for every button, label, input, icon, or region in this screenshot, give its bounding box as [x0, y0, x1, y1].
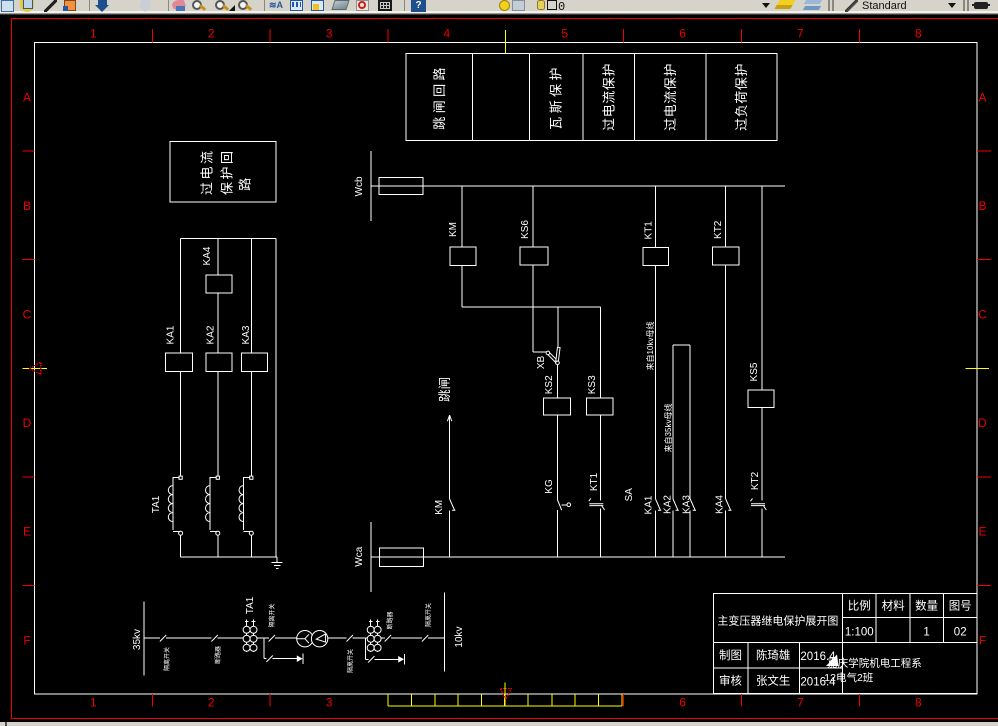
svg-text:KT1: KT1	[644, 221, 655, 240]
wire KA4 to minus bus	[725, 510, 727, 557]
svg-text:D: D	[978, 416, 987, 430]
label KS2	[544, 375, 555, 394]
wire KM coil to trip line	[461, 266, 463, 307]
svg-text:KT1: KT1	[589, 472, 600, 491]
label KS5	[749, 362, 760, 381]
primary feeder line	[144, 637, 444, 639]
row boundary ticks right	[977, 151, 991, 585]
wire: KA1 branch	[180, 239, 182, 478]
contact KA1	[656, 499, 662, 510]
svg-text:7: 7	[797, 696, 804, 710]
label 35kv	[132, 629, 143, 650]
column numbers bottom	[90, 696, 922, 710]
table cell label: overcurrent protection 1	[601, 63, 616, 131]
relay coil KS6	[520, 247, 548, 265]
wire 35kv branch A	[672, 345, 674, 499]
table cell label: overload protection	[734, 63, 749, 131]
svg-text:KS5: KS5	[749, 362, 760, 381]
svg-text:张文生: 张文生	[756, 674, 791, 688]
header drawing no	[949, 600, 972, 613]
centering mark bottom (yellow)	[504, 683, 506, 706]
svg-text:过负荷保护: 过负荷保护	[734, 63, 749, 131]
contact KG	[557, 499, 570, 510]
header quantity	[915, 599, 938, 613]
svg-text:D: D	[23, 416, 32, 430]
svg-text:跳闸回路: 跳闸回路	[432, 64, 447, 130]
trip output arrow	[447, 415, 451, 499]
relay coil KT1	[643, 247, 668, 265]
label KT2 contact	[750, 471, 761, 490]
wire KM drop	[461, 186, 463, 247]
svg-text:嘉庆学院机电工程系: 嘉庆学院机电工程系	[827, 656, 922, 669]
wire KT1 coil to KA1 contact	[655, 266, 657, 499]
wire KM contact to minus bus	[449, 510, 451, 557]
label KA2 contact	[663, 495, 674, 514]
contact KM	[450, 499, 456, 510]
svg-text:35kv: 35kv	[132, 629, 143, 650]
label KA1 contact	[644, 495, 655, 514]
wire KT2 drop	[725, 186, 727, 247]
svg-text:隔离开关: 隔离开关	[268, 603, 276, 627]
school name line1	[827, 656, 922, 669]
table cell label: gas protection	[549, 64, 564, 130]
svg-text:B: B	[23, 199, 31, 213]
svg-text:过电流保护: 过电流保护	[663, 63, 678, 131]
column boundary ticks bottom	[152, 694, 859, 707]
svg-text:KS3: KS3	[587, 375, 598, 394]
svg-text:XB: XB	[536, 356, 547, 370]
svg-text:TA1: TA1	[245, 596, 256, 614]
svg-text:过电流: 过电流	[200, 149, 215, 196]
label Wcb	[354, 176, 365, 196]
10kv bus bar	[443, 592, 445, 671]
wire: right return branch to ground	[275, 239, 277, 557]
35kv feeder cap	[673, 344, 690, 346]
label KT1 contact	[589, 472, 600, 491]
column boundary ticks top	[152, 29, 859, 43]
svg-text:保护回: 保护回	[220, 149, 235, 196]
svg-text:E: E	[978, 525, 986, 539]
cell drafter name	[756, 648, 791, 662]
label XB	[536, 356, 547, 370]
svg-text:KA1: KA1	[644, 495, 655, 514]
wire KT1 contact to minus bus	[599, 508, 601, 557]
label 10kv	[454, 626, 465, 647]
svg-text:KA3: KA3	[241, 325, 252, 344]
wire: KA3 branch	[250, 239, 252, 478]
relay coil KS5	[748, 390, 774, 408]
breaker QF2	[347, 635, 353, 642]
label QF2	[347, 649, 355, 673]
svg-text:KA4: KA4	[202, 246, 213, 265]
isolator QS3	[422, 635, 428, 642]
centering mark top (yellow)	[504, 30, 506, 53]
wire KG to minus bus	[556, 510, 558, 557]
overcurrent protection loop label box	[170, 142, 276, 203]
svg-text:KA2: KA2	[663, 495, 674, 514]
contact KA2	[673, 499, 679, 510]
relay coil KS3	[587, 398, 613, 415]
centering mark right (yellow)	[966, 367, 990, 369]
svg-text:6: 6	[679, 27, 686, 41]
centering mark left (yellow)	[23, 367, 48, 369]
relay coil KT2	[713, 247, 739, 265]
wire below TA1 phase B	[217, 535, 219, 557]
cell drawn-by	[719, 649, 742, 662]
positive bus wire	[371, 185, 785, 187]
wire KA2 to minus bus	[672, 510, 674, 557]
row boundary ticks left	[23, 151, 35, 585]
row letters left	[23, 90, 32, 647]
wire KA3 to minus bus	[689, 510, 691, 557]
svg-text:7: 7	[797, 27, 804, 41]
svg-text:主变压器继电保护展开图: 主变压器继电保护展开图	[717, 614, 838, 628]
breaker QF1	[211, 635, 217, 642]
svg-text:8: 8	[915, 696, 922, 710]
svg-text:Wca: Wca	[354, 546, 365, 566]
centering triangle left (red dashed)	[30, 362, 41, 374]
CT secondary common bus	[181, 556, 278, 558]
negative bus wire	[371, 556, 785, 558]
wire KS2 to KG contact	[556, 415, 558, 499]
svg-text:6: 6	[679, 696, 686, 710]
svg-text:02: 02	[954, 627, 967, 639]
wire KT2 coil to KA4 contact	[725, 265, 727, 499]
label KA1	[166, 325, 177, 344]
wire KS3 to KT1 contact	[599, 415, 601, 501]
label KA3	[241, 325, 252, 344]
label KT2	[713, 220, 724, 239]
fuse FU2 on Wca	[380, 548, 424, 567]
label Wca	[354, 546, 365, 566]
svg-text:材料: 材料	[882, 599, 905, 613]
contact KT2 (delayed)	[751, 498, 767, 510]
svg-text:3: 3	[326, 27, 333, 41]
wire XB to KS2	[556, 365, 558, 398]
CT TA1 string A	[243, 620, 250, 653]
wire trip line down to KS3	[599, 307, 601, 398]
svg-text:瓦斯保护: 瓦斯保护	[549, 64, 564, 130]
label KT1	[644, 221, 655, 240]
label trip (tiaozha)	[438, 377, 452, 402]
current transformer TA1 phase B	[206, 476, 220, 535]
svg-text:1:100: 1:100	[845, 627, 874, 639]
protection tap 1	[264, 638, 303, 664]
svg-text:1: 1	[90, 27, 97, 41]
cell check date	[800, 677, 836, 689]
bus bar Wcb	[370, 151, 372, 221]
table cell label: overcurrent protection 2	[663, 63, 678, 131]
label QS3	[425, 603, 433, 627]
35kv bus bar	[143, 602, 145, 676]
overcurrent loop box text	[200, 149, 253, 196]
current transformer TA1 phase C	[239, 476, 253, 535]
label KA4 contact	[715, 495, 726, 514]
svg-text:陈琦雄: 陈琦雄	[756, 648, 791, 662]
svg-text:KM: KM	[448, 222, 459, 237]
svg-text:来自10kv母线: 来自10kv母线	[645, 322, 655, 371]
svg-text:断路器: 断路器	[214, 646, 222, 664]
svg-text:2: 2	[208, 696, 215, 710]
CT TA2 string B	[374, 620, 381, 653]
svg-text:4: 4	[444, 27, 451, 41]
column numbers top	[90, 27, 922, 41]
label KM contact	[434, 500, 445, 515]
table cell label: trip circuit	[432, 64, 447, 130]
svg-text:隔离开关: 隔离开关	[347, 649, 355, 673]
svg-text:1: 1	[90, 696, 97, 710]
cell draw date	[800, 651, 836, 663]
value quantity	[923, 627, 929, 639]
svg-text:E: E	[23, 525, 31, 539]
label TA1 (single line)	[245, 596, 256, 614]
wire: KA2/KA4 branch	[217, 239, 219, 478]
label QF3	[386, 611, 394, 629]
wire below TA1 phase C	[250, 535, 252, 557]
svg-text:图号: 图号	[949, 600, 972, 613]
relay coil KM	[450, 247, 476, 265]
header material	[882, 599, 905, 613]
svg-text:KA2: KA2	[206, 325, 217, 344]
wire KT1 drop	[655, 186, 657, 248]
label KA4	[202, 246, 213, 265]
contact KA4	[726, 499, 732, 510]
removable link XB	[546, 347, 560, 364]
fuse FU1 on Wcb	[379, 177, 423, 194]
svg-text:过电流保护: 过电流保护	[601, 63, 616, 131]
svg-text:A: A	[23, 90, 31, 104]
transformer T1	[297, 631, 328, 647]
label from 35kv bus	[663, 404, 673, 453]
CT TA1 string B	[250, 620, 257, 653]
svg-text:路: 路	[238, 175, 253, 191]
svg-text:KG: KG	[544, 479, 555, 494]
label KG	[544, 479, 555, 494]
value scale	[845, 627, 874, 639]
svg-text:KT2: KT2	[750, 471, 761, 490]
svg-text:TA1: TA1	[151, 495, 162, 513]
trip distribution line	[462, 306, 600, 308]
school name line2	[824, 671, 874, 684]
svg-text:SA: SA	[624, 488, 635, 502]
contact KA3	[690, 499, 696, 510]
value drawing no	[954, 627, 967, 639]
svg-text:KM: KM	[434, 500, 445, 515]
svg-text:KS6: KS6	[520, 220, 531, 239]
label CT area left	[268, 603, 276, 627]
relay coil KA4	[206, 275, 232, 293]
row letters right	[978, 90, 987, 647]
svg-text:Wcb: Wcb	[354, 176, 365, 196]
svg-text:C: C	[23, 308, 32, 322]
label KA3 contact	[682, 495, 693, 514]
cell checker name	[756, 674, 791, 688]
svg-text:隔离开关: 隔离开关	[163, 647, 171, 671]
svg-text:断路器: 断路器	[386, 611, 394, 629]
yellow ruler bottom	[388, 694, 622, 706]
label KA2	[206, 325, 217, 344]
CT TA2 string A	[367, 620, 374, 653]
svg-text:5: 5	[561, 27, 568, 41]
wire KA1 contact to minus bus	[655, 510, 657, 557]
svg-text:10kv: 10kv	[454, 626, 465, 647]
wire KS5 to KT2 contact	[761, 408, 763, 501]
relay coil KA1	[165, 353, 192, 371]
wire KT2 contact to minus bus	[761, 508, 763, 557]
svg-text:数量: 数量	[915, 599, 938, 613]
svg-text:制图: 制图	[719, 649, 742, 662]
svg-text:来自35kv母线: 来自35kv母线	[663, 404, 673, 453]
svg-text:KA4: KA4	[715, 495, 726, 514]
left relay block top wire	[181, 238, 277, 240]
centering triangle bottom (red dashed)	[500, 689, 511, 700]
svg-text:比例: 比例	[848, 599, 871, 613]
label QF1	[214, 646, 222, 664]
label KS6	[520, 220, 531, 239]
svg-text:跳闸: 跳闸	[438, 377, 452, 402]
wire KS6 drop	[532, 186, 534, 247]
label KM	[448, 222, 459, 237]
breaker QF3	[385, 635, 391, 642]
svg-text:审核: 审核	[719, 674, 742, 688]
school triangle blob	[826, 655, 839, 667]
cell checked-by	[719, 674, 742, 688]
label SA	[624, 488, 635, 502]
svg-text:12电气2班: 12电气2班	[824, 671, 874, 684]
svg-text:C: C	[978, 308, 987, 322]
svg-text:A: A	[978, 90, 986, 104]
current transformer TA1 phase A	[168, 476, 182, 535]
protection tap 2	[366, 638, 405, 664]
label KS3	[587, 375, 598, 394]
contact KT1 (delayed)	[589, 498, 605, 510]
title text	[717, 614, 838, 628]
svg-text:KA1: KA1	[166, 325, 177, 344]
svg-text:KT2: KT2	[713, 220, 724, 239]
isolator QS2	[269, 635, 275, 642]
label from 10kv bus	[645, 322, 655, 371]
ground	[272, 557, 283, 569]
wire KS6 coil to XB	[533, 265, 546, 352]
svg-text:3: 3	[326, 696, 333, 710]
bus bar Wca	[370, 522, 372, 592]
svg-text:KS2: KS2	[544, 375, 555, 394]
svg-text:2: 2	[208, 27, 215, 41]
svg-text:F: F	[979, 633, 986, 647]
wire 35kv branch B	[689, 345, 691, 499]
title block frame	[713, 593, 977, 693]
svg-text:B: B	[978, 199, 986, 213]
svg-text:隔离开关: 隔离开关	[425, 603, 433, 627]
svg-text:8: 8	[915, 27, 922, 41]
wire trip line to XB	[557, 307, 559, 347]
relay coil KA2	[206, 353, 232, 371]
label QS1	[163, 647, 171, 671]
isolator QS1	[160, 635, 166, 642]
header scale	[848, 599, 871, 613]
relay coil KA3	[242, 353, 268, 371]
wire below TA1 phase A	[180, 535, 182, 557]
svg-text:KA3: KA3	[682, 495, 693, 514]
relay coil KS2	[544, 398, 571, 415]
label TA1	[151, 495, 162, 513]
wire KS5 branch upper	[761, 186, 763, 390]
function table	[406, 54, 777, 141]
svg-text:1: 1	[923, 627, 929, 639]
svg-text:F: F	[23, 633, 30, 647]
